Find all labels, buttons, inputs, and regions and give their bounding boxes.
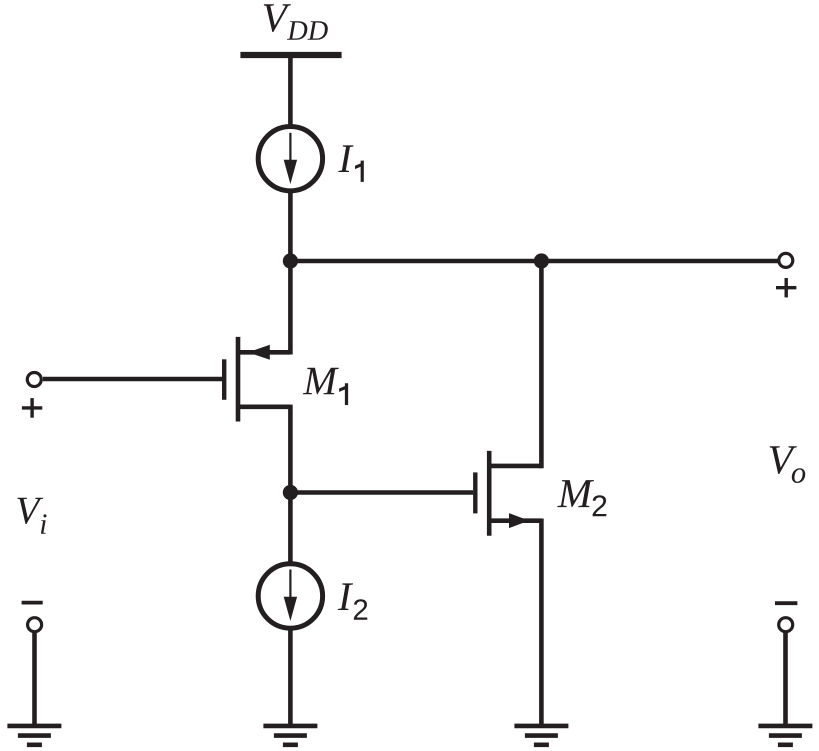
power VDD supply bar (240, 52, 341, 58)
label I2 (338, 583, 367, 619)
terminal open circle above right ground (779, 618, 793, 632)
current source I2 (258, 564, 322, 628)
plus sign at Vo (776, 278, 796, 297)
net VDD label (264, 4, 328, 40)
wire left terminal to ground (32, 631, 37, 724)
wire I1 bottom to node A (288, 190, 293, 262)
transistor M1 (PMOS) (224, 337, 290, 422)
terminal Vi open circle (27, 373, 41, 387)
transistor M2 (NMOS) (475, 451, 541, 536)
ground (left, Vi return) (7, 726, 61, 745)
node B junction dot (534, 253, 549, 268)
current source I1 (258, 126, 322, 190)
wire M1 drain down to node C (288, 405, 293, 493)
label I1 (338, 145, 364, 182)
terminal open circle above left ground (28, 618, 42, 632)
node A junction dot (283, 253, 298, 268)
minus sign at Vo ground terminal (775, 601, 797, 605)
wire output rail (node A to Vo terminal) (290, 259, 778, 264)
wire node C to M2 gate (290, 490, 473, 495)
ground (below M2 source) (514, 726, 568, 745)
ground (below I2) (263, 726, 317, 745)
wire VDD bar to I1 top (288, 55, 293, 129)
node C junction dot (283, 485, 298, 500)
wire right terminal to ground (783, 631, 788, 724)
label M1 (303, 368, 348, 405)
wire node C down to I2 top (288, 493, 293, 565)
ground (right, Vo return) (758, 726, 812, 745)
wire M2 drain up to node B (539, 261, 544, 468)
wire I2 bottom to ground (288, 628, 293, 725)
label Vi (17, 498, 46, 534)
terminal Vo open circle (779, 253, 793, 267)
wire M1 source up to node A (288, 261, 293, 355)
wire M2 source down to ground (539, 519, 544, 725)
label Vo (770, 446, 806, 483)
minus sign at Vi ground terminal (22, 601, 43, 605)
plus sign at Vi (22, 398, 42, 418)
wire Vi terminal to M1 gate (43, 377, 224, 382)
label M2 (557, 480, 606, 516)
